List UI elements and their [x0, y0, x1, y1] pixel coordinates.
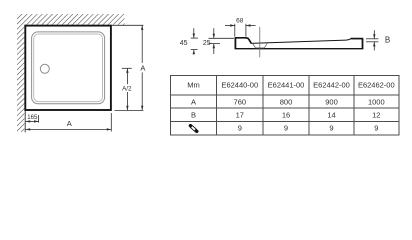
- svg-text:E62442-00: E62442-00: [313, 81, 350, 90]
- svg-text:165: 165: [27, 115, 38, 121]
- dimension B: [366, 30, 378, 50]
- svg-text:68: 68: [236, 18, 244, 25]
- svg-text:17: 17: [236, 111, 244, 120]
- svg-text:B: B: [385, 36, 390, 45]
- svg-text:B: B: [191, 111, 196, 120]
- dimension A bottom: [26, 113, 112, 132]
- svg-text:E62441-00: E62441-00: [268, 81, 305, 90]
- svg-text:A: A: [67, 119, 72, 128]
- dimension 68: [225, 24, 256, 37]
- wall hatch band: [17, 14, 125, 132]
- drain recess in section: [253, 43, 268, 48]
- svg-text:Mm: Mm: [187, 81, 200, 90]
- svg-text:16: 16: [282, 111, 290, 120]
- drain circle: [40, 64, 49, 73]
- svg-text:9: 9: [284, 124, 288, 133]
- dimension 165: [26, 115, 39, 123]
- svg-text:800: 800: [280, 97, 293, 106]
- svg-text:760: 760: [234, 97, 247, 106]
- svg-text:9: 9: [238, 124, 242, 133]
- top extension line: [112, 24, 144, 26]
- tray outer square: [25, 26, 111, 110]
- dimension A/2 right: [122, 68, 132, 110]
- svg-text:25: 25: [203, 40, 211, 47]
- pencil icon: [188, 123, 199, 134]
- svg-text:14: 14: [327, 111, 335, 120]
- svg-text:A: A: [140, 64, 145, 73]
- dimension 45: [191, 28, 198, 54]
- dimension A right: [115, 25, 144, 110]
- dimension 25: [209, 28, 235, 54]
- tray rim inner rounded rect: [34, 34, 103, 102]
- svg-text:1000: 1000: [368, 97, 385, 106]
- svg-text:9: 9: [329, 124, 333, 133]
- svg-text:900: 900: [325, 97, 338, 106]
- svg-text:E62440-00: E62440-00: [221, 81, 258, 90]
- tray rim outer rounded rect: [32, 32, 105, 104]
- table header row: [187, 81, 394, 90]
- table row depth values: [238, 124, 379, 133]
- svg-text:E62462-00: E62462-00: [358, 81, 395, 90]
- table row A: [191, 97, 385, 106]
- svg-text:45: 45: [180, 40, 188, 47]
- svg-text:9: 9: [374, 124, 378, 133]
- wall boundary line below tray: [24, 111, 26, 133]
- svg-text:A/2: A/2: [122, 85, 132, 92]
- svg-text:A: A: [191, 97, 196, 106]
- table grid: [171, 75, 399, 135]
- section profile: [235, 38, 364, 49]
- table row B: [191, 111, 380, 120]
- svg-text:12: 12: [372, 111, 380, 120]
- drain axis line: [259, 27, 261, 58]
